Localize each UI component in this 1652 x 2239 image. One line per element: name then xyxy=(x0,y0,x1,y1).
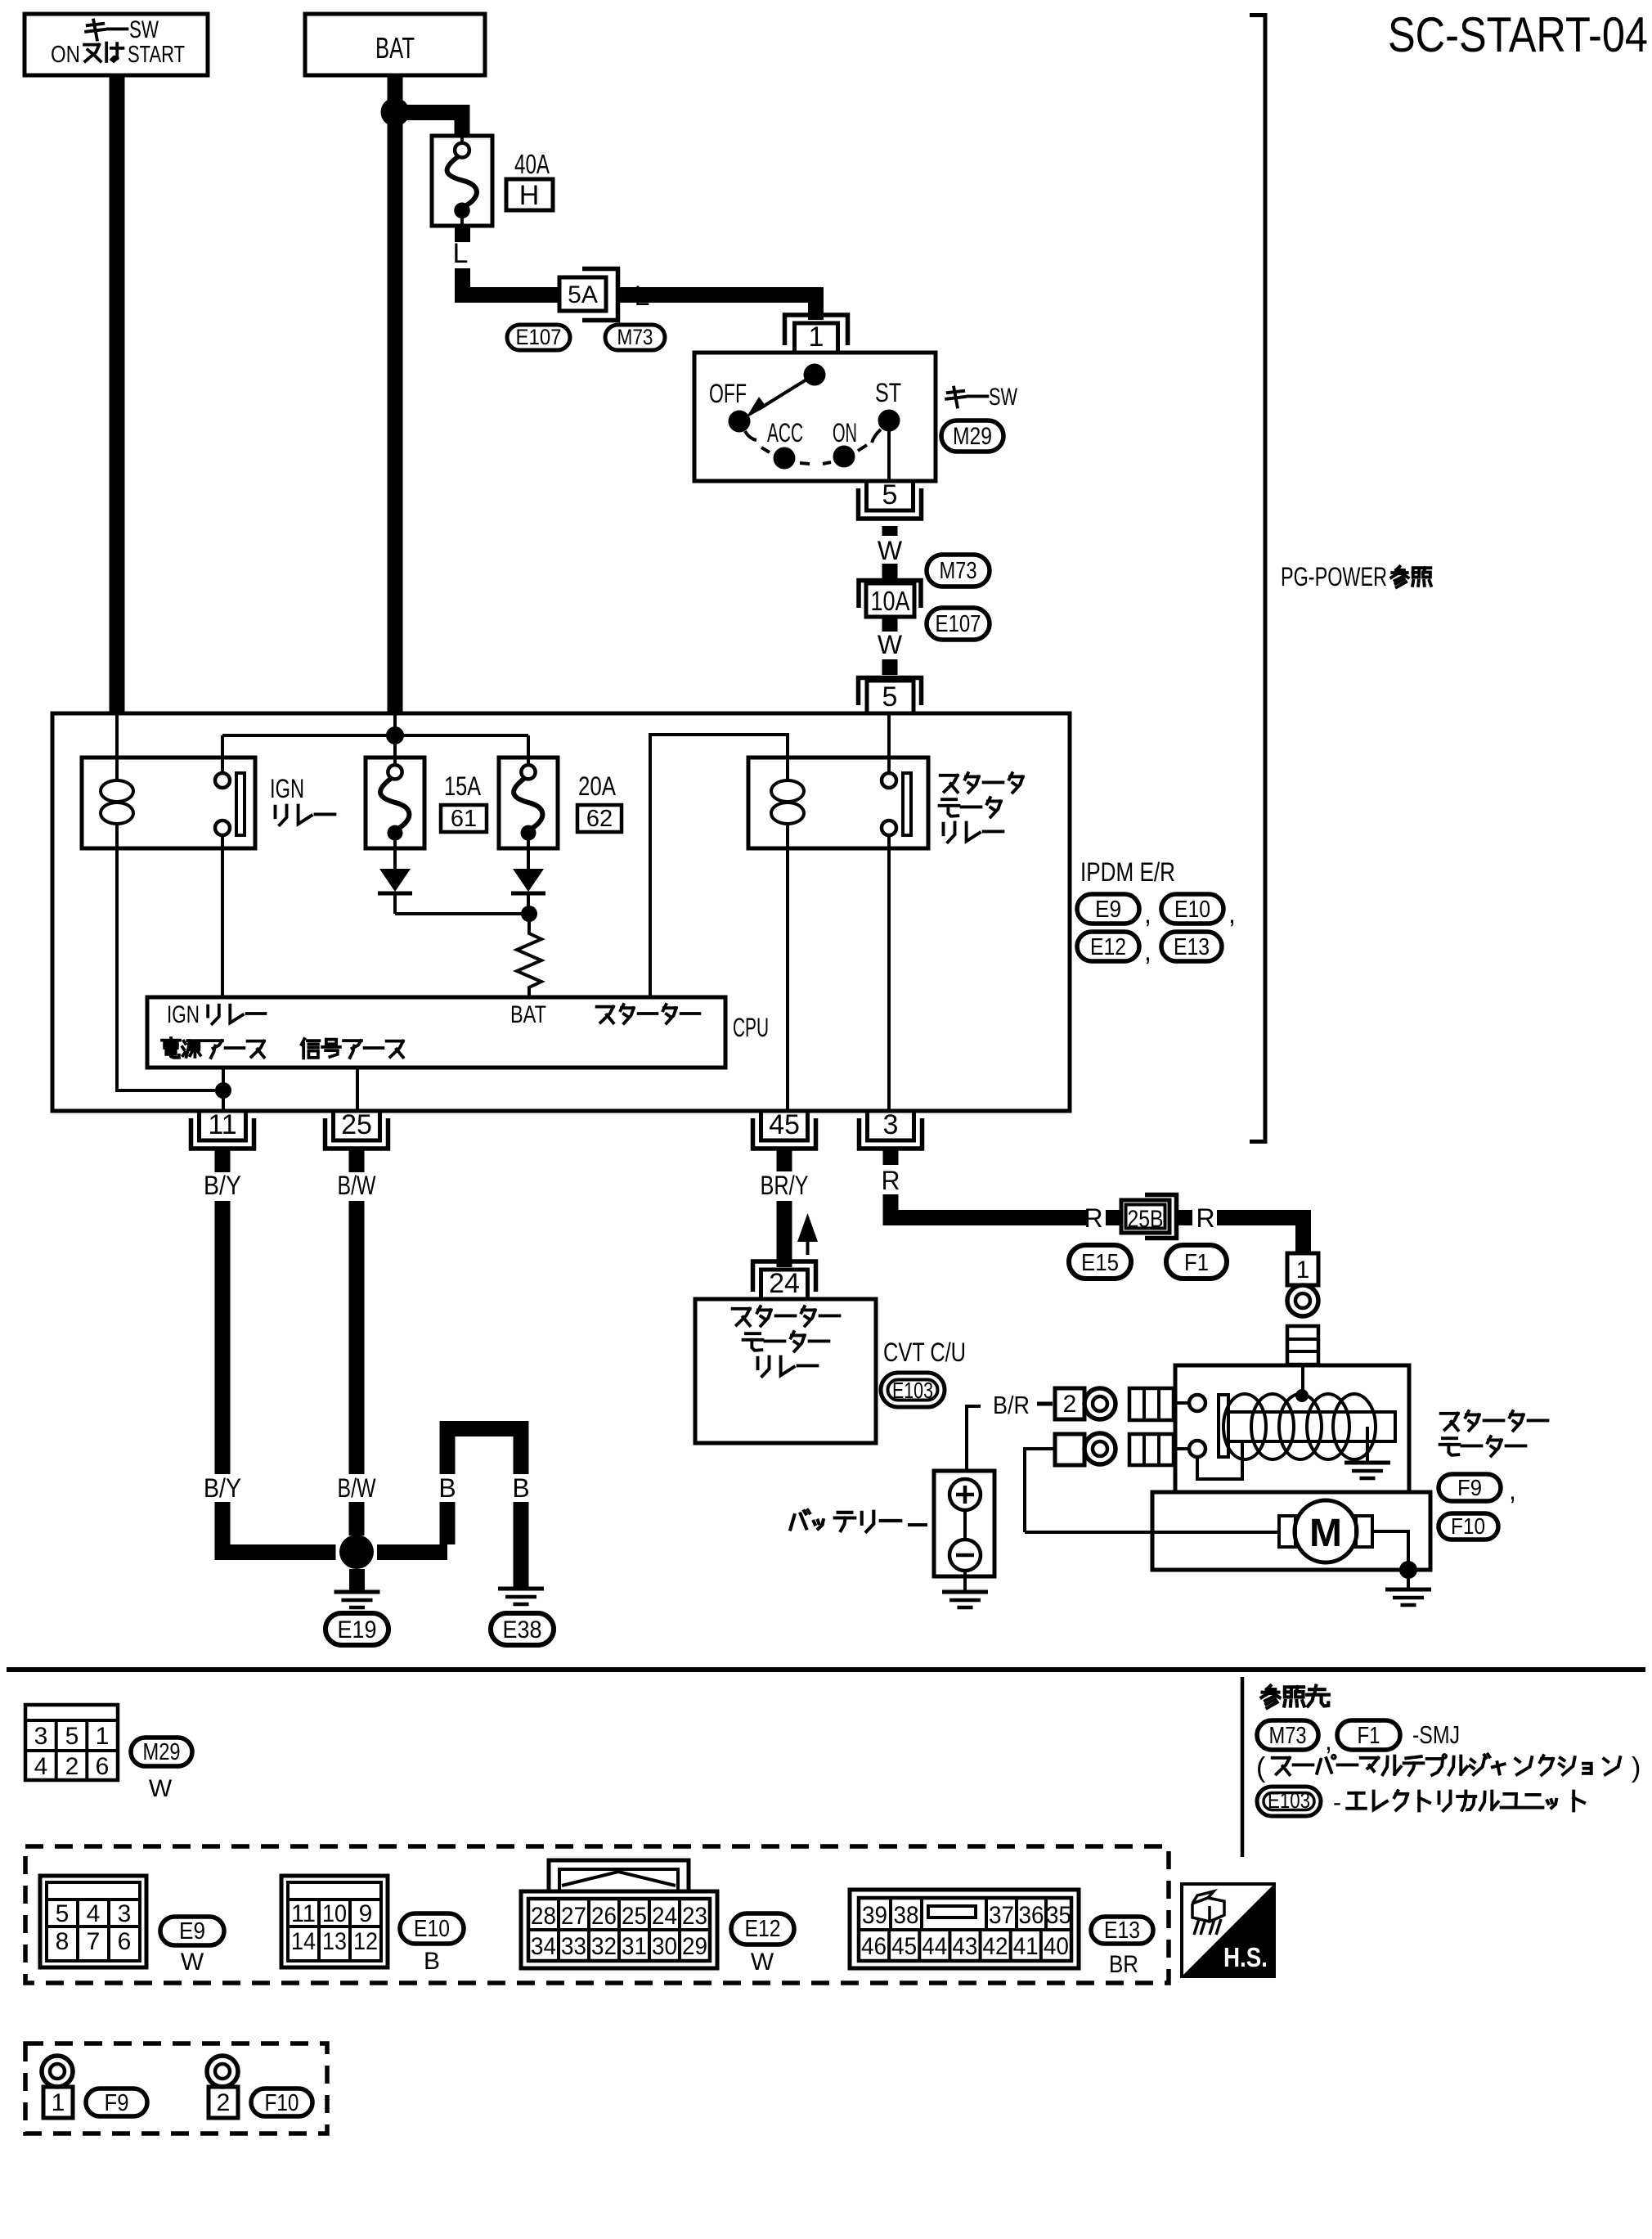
contact ON xyxy=(833,446,855,468)
wire B/W down xyxy=(349,1201,365,1535)
svg-text:M73: M73 xyxy=(940,558,977,584)
label B 1 xyxy=(438,1473,456,1503)
svg-text:M73: M73 xyxy=(1269,1723,1307,1749)
svg-text:8: 8 xyxy=(56,1928,70,1955)
label CVT relay xyxy=(733,1306,840,1376)
label L xyxy=(453,238,469,269)
svg-text:,: , xyxy=(1509,1476,1516,1505)
wire starter cpu riser xyxy=(650,735,788,997)
svg-text:25B: 25B xyxy=(1128,1206,1164,1233)
wire branch to fuse xyxy=(395,105,470,136)
svg-text:14: 14 xyxy=(291,1928,316,1955)
connector E12r xyxy=(1077,932,1139,961)
bracket PG-POWER xyxy=(1250,13,1267,1144)
terminal 2 xyxy=(1055,1388,1084,1419)
svg-text:38: 38 xyxy=(894,1902,919,1929)
connector E107-2 xyxy=(927,608,990,640)
svg-text:E103: E103 xyxy=(892,1378,933,1403)
svg-text:OFF: OFF xyxy=(709,379,747,408)
pin 1 key switch xyxy=(785,315,848,353)
svg-text:26: 26 xyxy=(591,1903,617,1930)
svg-text:E13: E13 xyxy=(1174,934,1210,960)
hatch block 2 xyxy=(1129,1388,1174,1420)
svg-text:2: 2 xyxy=(65,1753,79,1780)
contact ACC xyxy=(774,447,796,470)
svg-text:4: 4 xyxy=(87,1900,101,1927)
ring terminal 1 xyxy=(1287,1285,1318,1316)
fusible link 40A xyxy=(432,136,492,242)
wire diode bus xyxy=(395,912,529,915)
label CPU xyxy=(733,1013,769,1042)
svg-text:E107: E107 xyxy=(936,611,981,637)
svg-text:B/W: B/W xyxy=(338,1473,377,1503)
svg-text:START: START xyxy=(128,42,185,68)
relay starter motor xyxy=(748,713,928,848)
connector E19 xyxy=(325,1613,388,1645)
connector view E10 xyxy=(281,1876,388,1967)
svg-text:R: R xyxy=(1196,1203,1214,1233)
connector view E12 xyxy=(521,1860,717,1968)
terminal 1 starter xyxy=(1287,1253,1318,1285)
box keySW-ON/START xyxy=(25,14,208,75)
wire after 5A xyxy=(617,287,654,303)
label B/W 2 xyxy=(338,1473,377,1503)
hatch block battery cable xyxy=(1287,1326,1318,1365)
svg-text:B/R: B/R xyxy=(993,1391,1030,1419)
label IGN relay xyxy=(270,774,334,825)
svg-text:30: 30 xyxy=(652,1933,677,1960)
svg-text:15A: 15A xyxy=(444,771,482,801)
node motor gnd xyxy=(1399,1561,1417,1579)
battery plus xyxy=(949,1479,981,1510)
pin 25 xyxy=(325,1109,388,1172)
label 20A / 62 xyxy=(577,771,622,832)
svg-text:E9: E9 xyxy=(179,1918,205,1945)
comma2 xyxy=(1228,899,1236,928)
svg-text:5: 5 xyxy=(882,479,898,510)
switch dashed arc xyxy=(761,445,867,464)
comma F9 xyxy=(1509,1476,1516,1505)
motor M xyxy=(1279,1500,1372,1562)
label B/Y xyxy=(204,1171,241,1200)
wire motor right xyxy=(1372,1531,1408,1570)
wire to E19 gnd xyxy=(349,1569,365,1590)
svg-text:32: 32 xyxy=(591,1933,617,1960)
solenoid terminal lower xyxy=(1175,1441,1205,1457)
svg-text:M: M xyxy=(1309,1512,1342,1555)
connector E15 xyxy=(1069,1245,1131,1279)
label SMJ xyxy=(1412,1720,1460,1749)
battery internal wire xyxy=(963,1510,967,1540)
svg-text:1: 1 xyxy=(1296,1257,1310,1284)
connector E9 xyxy=(1077,894,1139,924)
wire R after 25B xyxy=(1176,1210,1192,1225)
svg-text:42: 42 xyxy=(983,1933,1008,1960)
terminal view F10 xyxy=(207,2056,238,2118)
box solenoid xyxy=(1175,1365,1409,1492)
wire B/Y down xyxy=(215,1201,231,1560)
svg-text:6: 6 xyxy=(96,1753,110,1780)
connector M29 xyxy=(941,420,1003,452)
svg-text:45: 45 xyxy=(891,1933,917,1960)
svg-text:28: 28 xyxy=(531,1903,556,1930)
wire R mid xyxy=(1106,1210,1121,1225)
connector F1 xyxy=(1166,1245,1227,1279)
svg-text:F9: F9 xyxy=(1457,1475,1482,1500)
svg-text:BAT: BAT xyxy=(375,31,415,65)
svg-text:L: L xyxy=(453,238,469,269)
connector E103 ref2 xyxy=(1257,1787,1321,1816)
svg-text:B: B xyxy=(512,1473,529,1503)
wire relay2 coil down xyxy=(786,848,789,1111)
wire battery gnd xyxy=(963,1571,967,1590)
svg-text:62: 62 xyxy=(586,806,613,832)
pin 3 xyxy=(860,1109,923,1165)
svg-text:BR: BR xyxy=(1109,1951,1138,1978)
svg-text:CPU: CPU xyxy=(733,1013,769,1042)
wire bus to relay/fuses xyxy=(222,735,528,758)
svg-text:E13: E13 xyxy=(1104,1918,1140,1944)
label B 2 xyxy=(512,1473,529,1503)
svg-text:PG-POWER: PG-POWER xyxy=(1281,562,1387,591)
connector view E9 xyxy=(40,1876,146,1967)
svg-text:11: 11 xyxy=(291,1900,316,1927)
svg-text:2: 2 xyxy=(217,2089,231,2116)
node diode bus xyxy=(521,906,537,922)
connector 25B xyxy=(1121,1195,1177,1239)
svg-text:R: R xyxy=(1084,1203,1102,1233)
svg-text:F1: F1 xyxy=(1184,1250,1209,1276)
node power-gnd xyxy=(215,1082,231,1099)
wire gnd bus right xyxy=(377,1544,447,1560)
svg-text:29: 29 xyxy=(682,1933,707,1960)
svg-text:9: 9 xyxy=(359,1900,373,1927)
svg-text:36: 36 xyxy=(1019,1902,1044,1929)
wire to keyswitch xyxy=(654,287,824,320)
svg-text:41: 41 xyxy=(1013,1933,1039,1960)
svg-text:45: 45 xyxy=(769,1109,800,1140)
wire into solenoid xyxy=(1301,1365,1304,1396)
label 15A / 61 xyxy=(441,771,487,832)
label L2 xyxy=(635,281,650,312)
connector F9 xyxy=(1439,1474,1501,1501)
wire R down xyxy=(883,1194,1088,1225)
svg-text:25: 25 xyxy=(622,1903,647,1930)
svg-text:BR/Y: BR/Y xyxy=(761,1171,809,1200)
svg-text:1: 1 xyxy=(809,321,824,353)
label R2 xyxy=(1084,1203,1102,1233)
svg-text:W: W xyxy=(751,1949,774,1976)
label ON xyxy=(833,418,857,447)
wire to motor gnd xyxy=(1407,1570,1410,1588)
terminal lower box xyxy=(1055,1434,1084,1465)
svg-text:E12: E12 xyxy=(745,1916,781,1942)
wire keySW riser xyxy=(115,713,119,758)
svg-text:35: 35 xyxy=(1046,1902,1071,1929)
svg-text:5: 5 xyxy=(882,681,898,713)
wire coil to gnd xyxy=(1366,1427,1369,1461)
label electrical unit xyxy=(1333,1789,1584,1816)
diode D2 xyxy=(511,848,545,914)
arrow up xyxy=(797,1213,818,1255)
svg-text:E10: E10 xyxy=(1174,897,1210,923)
wire B left xyxy=(440,1421,529,1544)
label CPU grounds xyxy=(162,1038,403,1058)
label keySW xyxy=(946,384,1017,411)
wire BAT down xyxy=(388,75,403,713)
svg-text:11: 11 xyxy=(208,1109,236,1140)
ring terminal 2 xyxy=(1084,1388,1116,1419)
label sanshou-saki xyxy=(1262,1686,1329,1708)
node bat-bus xyxy=(386,726,404,744)
label ST xyxy=(875,378,901,407)
ground motor xyxy=(1385,1589,1431,1605)
title SC-START-04 xyxy=(1388,7,1648,62)
svg-text:24: 24 xyxy=(769,1268,800,1299)
solenoid terminal upper xyxy=(1175,1395,1205,1411)
svg-text:24: 24 xyxy=(652,1903,677,1930)
connector F10 ref xyxy=(251,2088,312,2116)
label OFF xyxy=(709,379,747,408)
connector E10 xyxy=(1161,894,1223,924)
svg-text:W: W xyxy=(878,630,903,659)
svg-text:B: B xyxy=(424,1948,440,1975)
svg-text:33: 33 xyxy=(561,1933,586,1960)
label B/W xyxy=(338,1171,377,1200)
svg-text:IGN: IGN xyxy=(270,774,304,803)
connector E12 ref xyxy=(731,1913,794,1945)
svg-text:37: 37 xyxy=(989,1902,1014,1929)
svg-text:40: 40 xyxy=(1044,1933,1069,1960)
wire gnd bus left xyxy=(215,1544,336,1560)
fuse 15A xyxy=(366,758,424,848)
svg-text:ON: ON xyxy=(833,418,857,447)
label starter motor xyxy=(1440,1411,1548,1456)
diode D1 xyxy=(378,848,412,914)
wire coil return xyxy=(117,848,215,1090)
connector F10 xyxy=(1439,1513,1498,1540)
box motor xyxy=(1152,1492,1430,1570)
connector M73 ref xyxy=(1257,1720,1318,1750)
label CPU BAT xyxy=(510,1001,546,1028)
label B/Y 2 xyxy=(204,1473,241,1503)
wire keySW down xyxy=(110,75,125,713)
svg-text:SC-START-04: SC-START-04 xyxy=(1388,7,1648,62)
label ACC xyxy=(767,418,803,447)
svg-text:E38: E38 xyxy=(503,1616,542,1643)
svg-text:2: 2 xyxy=(1063,1391,1077,1418)
label PG-POWER xyxy=(1281,562,1431,591)
dashed box F9 F10 xyxy=(25,2043,327,2133)
svg-text:3: 3 xyxy=(118,1900,132,1927)
hatch block 3 xyxy=(1129,1434,1174,1465)
svg-text:39: 39 xyxy=(862,1902,887,1929)
solenoid coil xyxy=(1223,1394,1376,1459)
connector F9 ref xyxy=(86,2088,147,2116)
svg-text:5: 5 xyxy=(65,1723,79,1750)
label 40A / H xyxy=(506,149,553,211)
resistor xyxy=(517,914,541,997)
svg-text:(: ( xyxy=(1256,1752,1266,1783)
contact common xyxy=(804,364,826,386)
connector M73 xyxy=(605,325,665,350)
label B/R xyxy=(993,1391,1030,1419)
connector view M29 xyxy=(25,1705,118,1780)
comma3 xyxy=(1144,937,1151,966)
svg-text:SW: SW xyxy=(129,16,159,43)
ground E19 xyxy=(334,1592,380,1607)
pin 11 xyxy=(191,1109,254,1172)
svg-text:46: 46 xyxy=(861,1933,887,1960)
battery minus xyxy=(949,1540,981,1571)
connector view E13 xyxy=(850,1890,1079,1968)
svg-text:R: R xyxy=(881,1166,900,1195)
fuse 20A xyxy=(499,758,558,848)
label R3 xyxy=(1196,1203,1214,1233)
pin 24 CVT xyxy=(753,1261,816,1299)
svg-text:BAT: BAT xyxy=(510,1001,546,1028)
svg-text:,: , xyxy=(1144,937,1151,966)
wire power-gnd riser xyxy=(222,1068,225,1111)
wire BR/Y down xyxy=(777,1201,792,1267)
logo H.S. xyxy=(1182,1884,1274,1976)
dashed box connectors xyxy=(25,1846,1169,1983)
label BR/Y xyxy=(761,1171,809,1200)
wire battery plus xyxy=(967,1406,981,1471)
solenoid plunger plate xyxy=(1219,1395,1228,1457)
svg-text:43: 43 xyxy=(952,1933,977,1960)
box key switch M29 xyxy=(694,353,936,481)
divider reference xyxy=(1241,1677,1245,1857)
connector E10 ref xyxy=(400,1913,464,1944)
box IPDM E/R xyxy=(52,713,1070,1111)
ground solenoid xyxy=(1344,1463,1390,1478)
connector E9 ref xyxy=(160,1917,224,1945)
svg-text:,: , xyxy=(1228,899,1236,928)
connector E103 xyxy=(881,1373,945,1407)
svg-text:M29: M29 xyxy=(143,1739,181,1765)
svg-text:B/Y: B/Y xyxy=(204,1473,241,1503)
svg-text:,: , xyxy=(1144,899,1151,928)
svg-text:IPDM E/R: IPDM E/R xyxy=(1080,857,1175,887)
wire ST to pin5 xyxy=(887,431,891,481)
svg-text:25: 25 xyxy=(341,1109,372,1140)
wire W1 xyxy=(882,564,898,578)
svg-text:20A: 20A xyxy=(578,771,617,801)
svg-text:F1: F1 xyxy=(1358,1723,1380,1749)
svg-text:E103: E103 xyxy=(1268,1788,1310,1813)
switch arrow to OFF xyxy=(746,380,806,418)
svg-text:ACC: ACC xyxy=(767,418,803,447)
svg-text:ST: ST xyxy=(875,378,901,407)
svg-text:): ) xyxy=(1632,1752,1641,1783)
pin 5 IPDM xyxy=(859,678,922,714)
wire lower contact to core xyxy=(1197,1441,1242,1479)
svg-text:10A: 10A xyxy=(871,586,910,616)
fuse 10A block xyxy=(859,581,921,618)
svg-text:31: 31 xyxy=(622,1933,647,1960)
svg-text:-SMJ: -SMJ xyxy=(1412,1720,1460,1749)
pin 5 key switch xyxy=(859,479,922,536)
contact ST xyxy=(872,410,900,443)
comma1 xyxy=(1144,899,1151,928)
box CVT C/U xyxy=(695,1299,876,1443)
label SMJ note xyxy=(1256,1752,1641,1783)
relay IGN xyxy=(82,735,255,848)
svg-text:F9: F9 xyxy=(105,2090,129,2116)
label W1 xyxy=(878,536,903,565)
contact OFF xyxy=(729,411,757,441)
connector F1 ref xyxy=(1337,1720,1400,1750)
svg-text:3: 3 xyxy=(883,1109,899,1140)
svg-text:,: , xyxy=(1325,1726,1332,1756)
connector M29 ref xyxy=(131,1738,192,1766)
svg-text:M73: M73 xyxy=(617,325,653,349)
ground E38 xyxy=(498,1589,544,1604)
label W2 xyxy=(878,630,903,659)
svg-text:F10: F10 xyxy=(265,2090,299,2116)
label IPDM E/R xyxy=(1080,857,1175,887)
svg-text:13: 13 xyxy=(322,1928,347,1955)
connector 5A xyxy=(559,269,618,321)
connector E13 ref xyxy=(1091,1917,1153,1944)
svg-text:E19: E19 xyxy=(338,1616,377,1643)
label CVT C/U xyxy=(883,1338,966,1367)
wire W2a xyxy=(882,617,898,632)
svg-text:B/W: B/W xyxy=(338,1171,377,1200)
ground battery xyxy=(942,1592,988,1607)
svg-text:ON: ON xyxy=(51,42,80,68)
svg-text:5A: 5A xyxy=(568,281,598,308)
svg-text:44: 44 xyxy=(922,1933,947,1960)
dash B/R xyxy=(1037,1402,1053,1406)
label CPU IGN relay xyxy=(167,1001,265,1028)
svg-text:H.S.: H.S. xyxy=(1223,1942,1268,1972)
label E10 B xyxy=(424,1948,440,1975)
pin 45 xyxy=(753,1109,816,1171)
svg-text:M29: M29 xyxy=(953,423,992,450)
connector E107 xyxy=(507,325,570,350)
svg-text:W: W xyxy=(878,536,903,565)
wire motor left xyxy=(1025,1531,1279,1534)
svg-text:SW: SW xyxy=(989,384,1017,411)
svg-text:27: 27 xyxy=(561,1903,586,1930)
box CPU xyxy=(147,997,725,1068)
box battery xyxy=(934,1471,994,1576)
svg-text:E107: E107 xyxy=(516,325,562,349)
wire BAT riser xyxy=(393,713,397,735)
svg-text:6: 6 xyxy=(118,1928,132,1955)
svg-text:B/Y: B/Y xyxy=(204,1171,241,1200)
svg-text:B: B xyxy=(438,1473,456,1503)
wire relay2 contact down xyxy=(887,835,891,1111)
svg-text:E12: E12 xyxy=(1090,934,1126,960)
node ground junction xyxy=(339,1535,374,1569)
svg-text:H: H xyxy=(519,180,540,211)
svg-text:5: 5 xyxy=(56,1900,70,1927)
label starter relay xyxy=(940,773,1023,842)
svg-text:1: 1 xyxy=(52,2089,65,2116)
svg-text:3: 3 xyxy=(34,1723,48,1750)
svg-text:7: 7 xyxy=(87,1928,101,1955)
svg-text:W: W xyxy=(181,1949,204,1976)
svg-text:40A: 40A xyxy=(514,149,550,179)
connector M73-2 xyxy=(927,555,990,587)
label CPU starter xyxy=(597,1005,700,1023)
svg-text:-: - xyxy=(1333,1789,1341,1816)
svg-text:IGN: IGN xyxy=(167,1001,200,1028)
node coil top xyxy=(1295,1389,1309,1402)
